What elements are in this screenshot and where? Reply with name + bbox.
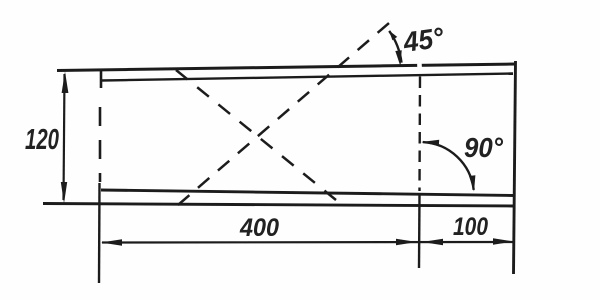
dashed diagonal B bottom-left to top-right extended at 45 deg — [178, 23, 389, 205]
left extension line below figure — [98, 183, 101, 283]
120 dimension line — [64, 74, 65, 200]
arrowhead 400 right — [396, 239, 417, 245]
top edge inner line — [101, 74, 513, 81]
dashed diagonal A top-left to bottom-right — [176, 70, 336, 200]
bottom edge upper line — [101, 190, 514, 196]
arrowhead 45 arc bottom — [395, 50, 401, 66]
top edge outer line — [57, 64, 516, 71]
arrowhead 45 arc top — [389, 31, 397, 41]
bottom edge lower line — [43, 204, 514, 207]
right edge — [514, 61, 516, 274]
svg-text:120: 120 — [25, 124, 59, 156]
arrowhead 90 arc left — [421, 140, 439, 146]
left end cap of top strip — [100, 70, 103, 89]
hidden vertical at 400 mark dashed — [418, 77, 421, 192]
left hidden edge dashed — [99, 107, 102, 182]
extension line at 400 mark below figure — [418, 195, 421, 268]
svg-text:90°: 90° — [464, 132, 504, 163]
arrowhead 120 top — [62, 72, 69, 94]
small break in top line at hidden vertical — [417, 63, 422, 67]
svg-text:100: 100 — [453, 213, 488, 241]
400 and 100 dimension line — [102, 241, 513, 244]
90 degree arc — [423, 142, 474, 190]
arrowhead 100 left — [422, 239, 443, 245]
arrowhead 100 right — [493, 238, 514, 244]
svg-text:400: 400 — [239, 214, 279, 242]
arrowhead 400 left — [101, 239, 122, 245]
svg-text:45°: 45° — [401, 22, 447, 59]
45 degree arc — [389, 31, 401, 63]
arrowhead 90 arc bottom — [469, 175, 475, 191]
arrowhead 120 bottom — [61, 182, 67, 204]
